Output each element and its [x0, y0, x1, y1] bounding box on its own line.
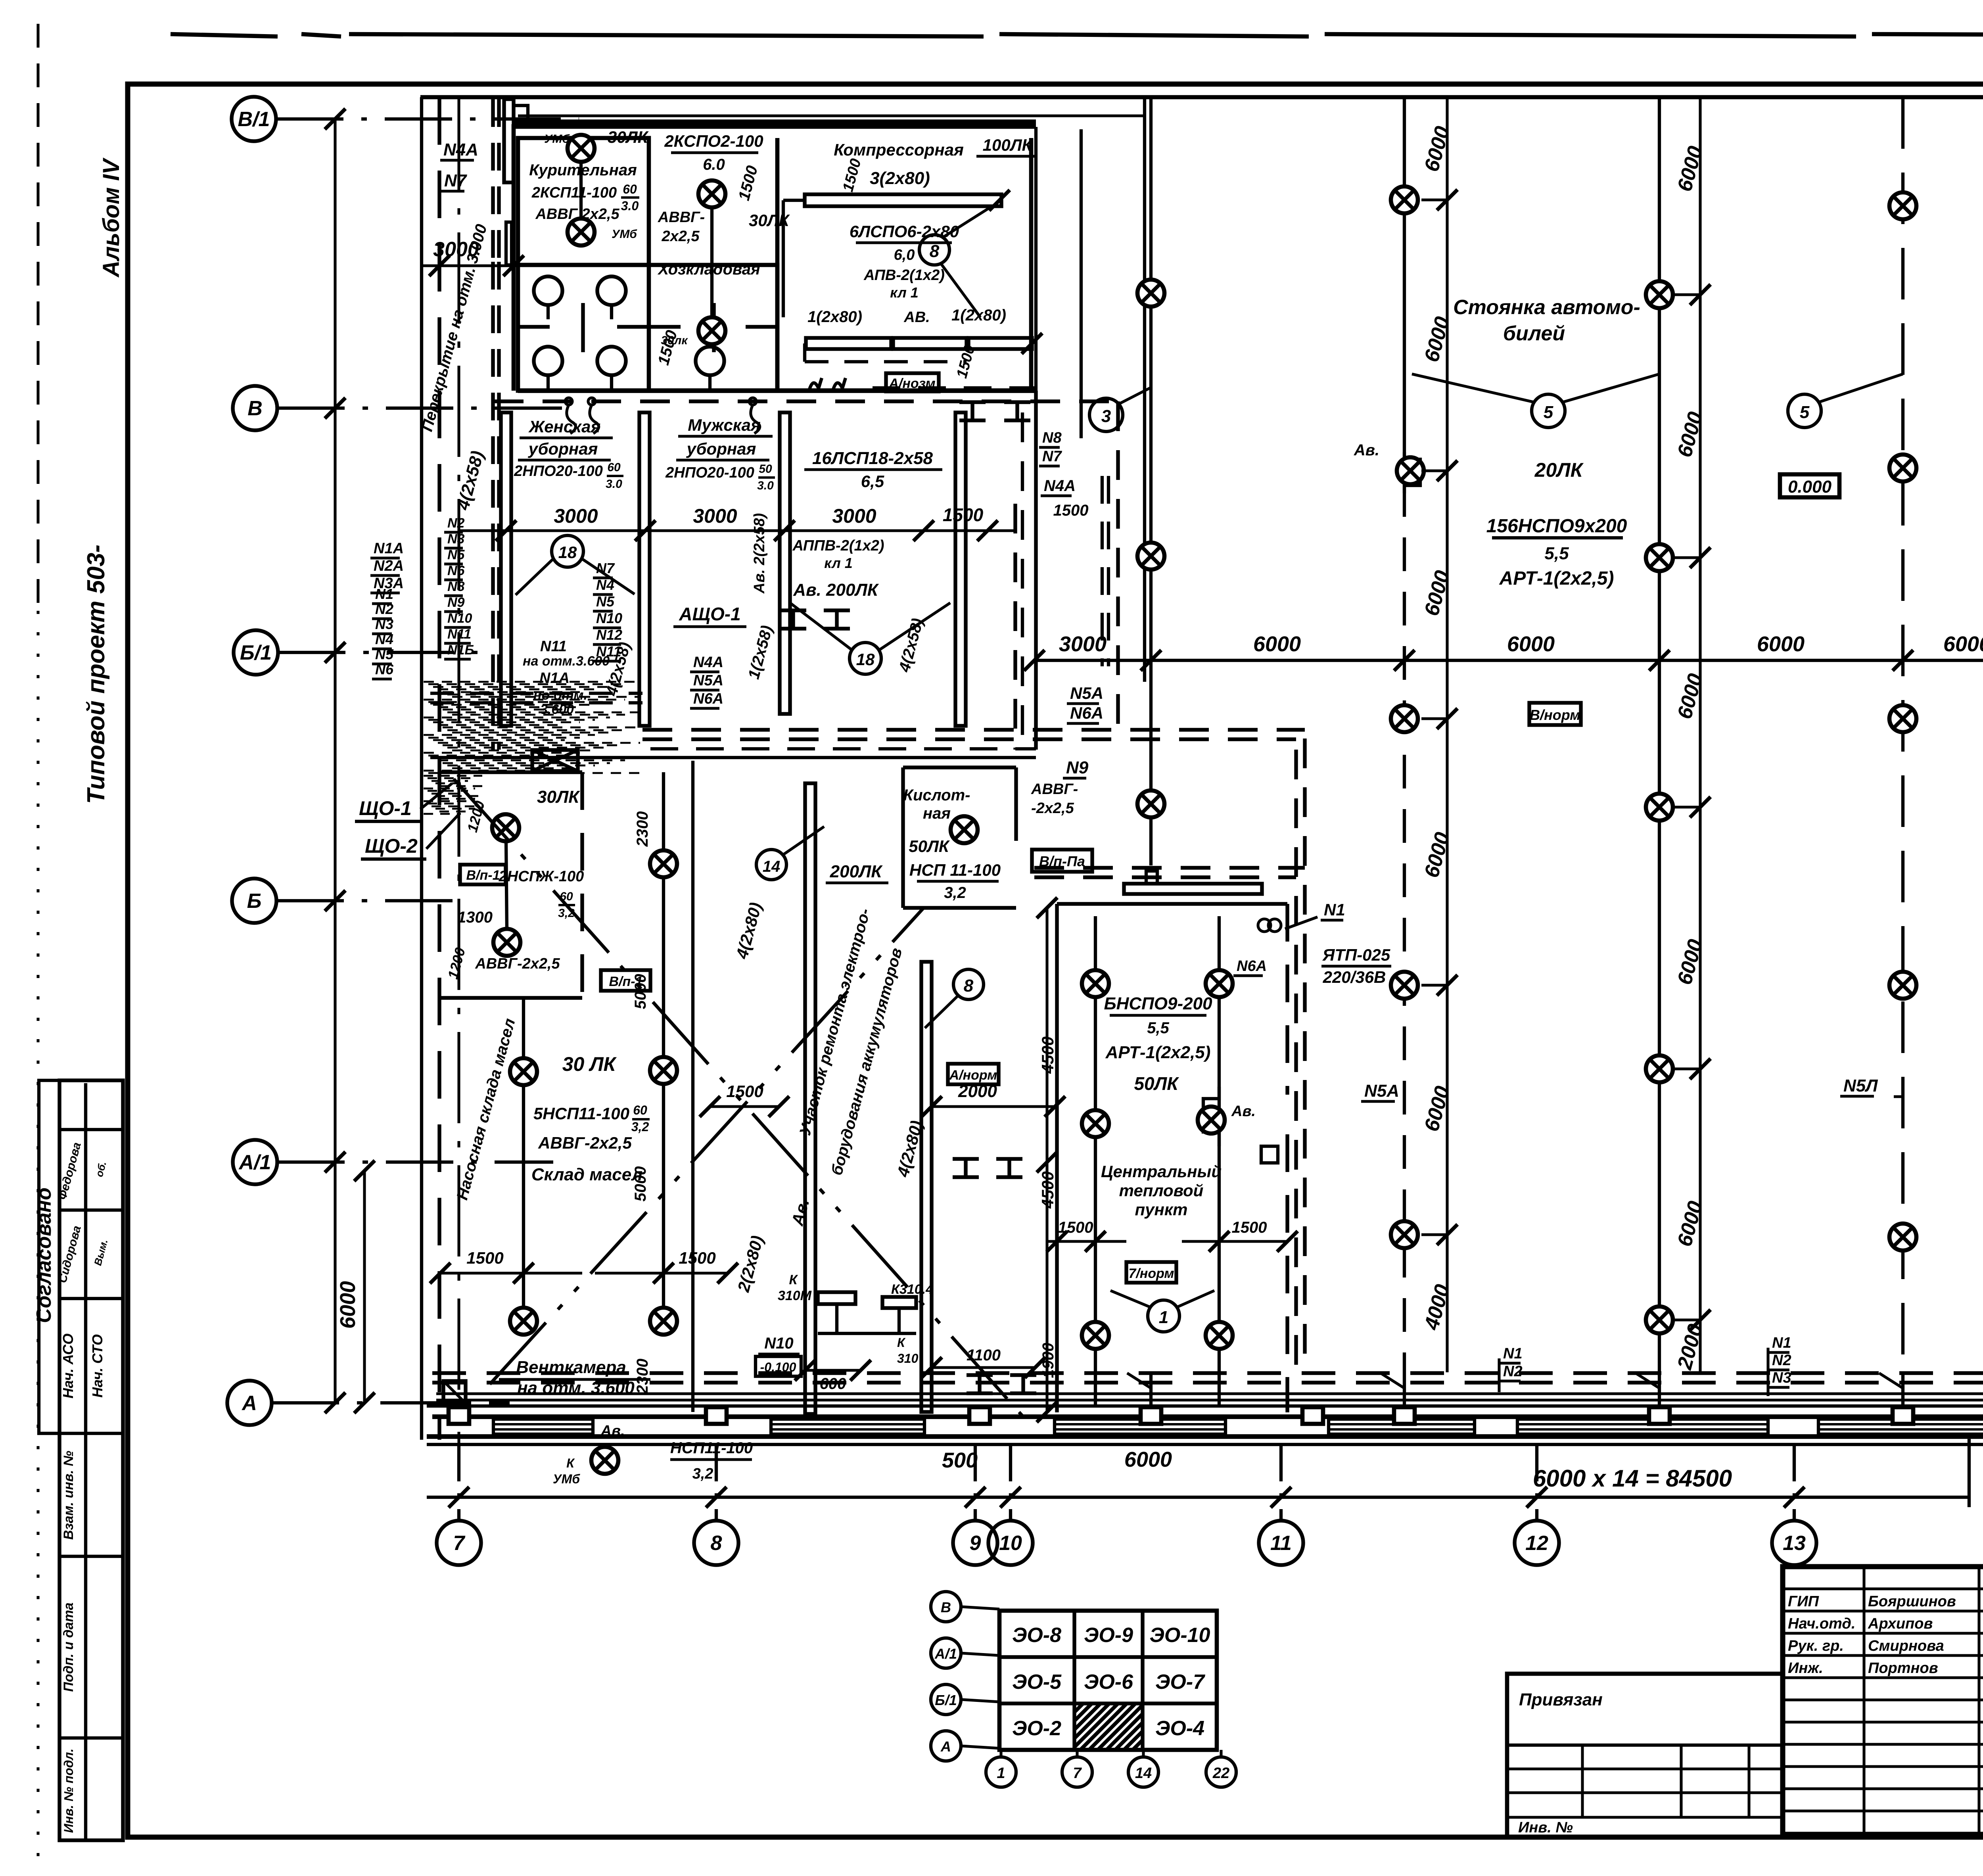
svg-text:ЭО-2: ЭО-2: [1012, 1717, 1061, 1740]
TsTP lamps col1: [1094, 916, 1097, 1384]
svg-text:N3: N3: [375, 616, 393, 632]
svg-text:ЭО-10: ЭО-10: [1150, 1624, 1210, 1647]
svg-text:А/1: А/1: [934, 1646, 957, 1662]
svg-text:тепловой: тепловой: [1119, 1181, 1204, 1200]
svg-text:Венткамера: Венткамера: [516, 1358, 626, 1377]
svg-text:50: 50: [759, 462, 772, 476]
svg-text:В: В: [247, 397, 263, 420]
svg-text:ЩО-1: ЩО-1: [359, 797, 412, 819]
svg-text:1500: 1500: [679, 1249, 715, 1267]
svg-text:9: 9: [970, 1532, 981, 1555]
lamp: [1082, 1322, 1109, 1349]
svg-text:1(2х80): 1(2х80): [807, 308, 862, 326]
svg-text:5НСП11-100: 5НСП11-100: [533, 1104, 629, 1123]
WC stalls partitions: [518, 325, 550, 328]
svg-text:1100: 1100: [967, 1347, 1001, 1364]
svg-text:18: 18: [558, 543, 577, 562]
lamp: [568, 219, 595, 246]
svg-text:Согласовано: Согласовано: [33, 1187, 56, 1323]
svg-text:билей: билей: [1503, 322, 1565, 345]
svg-text:7/норм: 7/норм: [1128, 1266, 1174, 1281]
svg-text:6000: 6000: [1757, 632, 1805, 656]
box V/p-1 mid: [601, 970, 650, 991]
dim line A x3649: [1446, 97, 1448, 1372]
lamp: [951, 816, 978, 843]
svg-text:N2А: N2А: [374, 558, 404, 574]
svg-text:20ЛК: 20ЛК: [1534, 459, 1584, 481]
svg-text:N2: N2: [1503, 1363, 1523, 1380]
building top exterior wall: [420, 95, 1983, 100]
svg-text:АРТ-1(2х2,5): АРТ-1(2х2,5): [1105, 1043, 1211, 1062]
svg-text:100ЛК: 100ЛК: [983, 136, 1034, 154]
axis 12: [1535, 1446, 1538, 1521]
svg-text:310: 310: [897, 1351, 919, 1366]
privyazan table: [1507, 1674, 1783, 1837]
svg-text:30 ЛК: 30 ЛК: [562, 1053, 617, 1075]
svg-text:5000: 5000: [632, 974, 649, 1009]
dim 2000: [932, 1105, 1055, 1108]
bottom feeder bundle: [432, 1371, 1983, 1375]
risers x2780: [1101, 476, 1104, 666]
top wall inner thick band: [514, 119, 1036, 129]
svg-text:50ЛК: 50ЛК: [1134, 1073, 1179, 1094]
svg-text:14: 14: [763, 858, 781, 875]
svg-text:N9: N9: [1066, 758, 1089, 777]
axis Б: [232, 879, 276, 923]
svg-text:N1: N1: [375, 586, 393, 602]
svg-text:2КСПО2-100: 2КСПО2-100: [664, 132, 763, 150]
svg-text:N4А: N4А: [693, 654, 723, 671]
circle 8b: [953, 969, 984, 999]
svg-text:156НСПО9х200: 156НСПО9х200: [1486, 516, 1627, 537]
svg-text:УМб: УМб: [544, 132, 570, 146]
axis В: [233, 386, 277, 430]
svg-text:НСП 11-100: НСП 11-100: [909, 861, 1001, 879]
hall wire column 3: [1658, 97, 1661, 1373]
luminaire strip long: [805, 783, 815, 1414]
feeder bundle above TsTP: [1034, 866, 1305, 869]
lamp: [650, 1057, 677, 1084]
norm box: [948, 1064, 999, 1084]
svg-text:Рук. гр.: Рук. гр.: [1788, 1638, 1844, 1654]
svg-text:Инв. №: Инв. №: [1518, 1819, 1573, 1836]
svg-text:кл 1: кл 1: [824, 555, 853, 571]
lamp: [510, 1058, 537, 1085]
lamp: [568, 135, 595, 162]
SchO cable maze: [424, 681, 640, 683]
svg-text:К310.4: К310.4: [891, 1282, 933, 1297]
svg-text:3.0: 3.0: [606, 478, 622, 491]
svg-text:А/1: А/1: [238, 1151, 271, 1174]
svg-text:Склад масел: Склад масел: [531, 1165, 642, 1184]
svg-text:Компрессорная: Компрессорная: [834, 140, 964, 159]
svg-text:N1: N1: [1324, 900, 1345, 919]
svg-text:4500: 4500: [1038, 1171, 1057, 1208]
svg-text:1: 1: [997, 1765, 1005, 1782]
lamp: [650, 1308, 677, 1335]
svg-text:АРТ-1(2х2,5): АРТ-1(2х2,5): [1499, 568, 1614, 589]
dim chain 3000x3: [459, 529, 1015, 532]
lamp: [650, 850, 677, 877]
hall wire column 2: [1403, 97, 1406, 460]
svg-text:Б/1: Б/1: [935, 1692, 957, 1708]
svg-text:N11: N11: [447, 627, 471, 642]
room Kompressornaya walls: [1029, 138, 1034, 391]
svg-text:8: 8: [930, 242, 940, 261]
svg-text:N1Б: N1Б: [447, 643, 474, 658]
axis А/1: [233, 1140, 277, 1184]
svg-text:600: 600: [820, 1375, 846, 1393]
dims 1500: [440, 1272, 582, 1274]
box V/p-IIa: [1032, 850, 1092, 872]
norm box: [1126, 1262, 1176, 1283]
svg-text:К: К: [566, 1456, 575, 1470]
svg-text:ная: ная: [923, 805, 951, 822]
svg-text:К: К: [897, 1335, 906, 1350]
svg-text:ЩО-2: ЩО-2: [365, 835, 418, 857]
axis 11: [1279, 1446, 1283, 1521]
svg-text:5,5: 5,5: [1147, 1019, 1169, 1037]
svg-text:6000: 6000: [1943, 632, 1983, 656]
axis 8: [715, 1446, 718, 1521]
svg-text:N8: N8: [447, 579, 465, 594]
svg-text:Кислот-: Кислот-: [903, 786, 970, 804]
svg-text:6ЛСПО6-2х80: 6ЛСПО6-2х80: [850, 222, 959, 241]
wall Sklad masel right: [691, 761, 694, 1412]
louver windows in bottom wall: [493, 1419, 593, 1434]
svg-text:6000 х 14 = 84500: 6000 х 14 = 84500: [1533, 1465, 1732, 1492]
svg-text:N10: N10: [596, 610, 622, 626]
svg-text:N5А: N5А: [1364, 1081, 1399, 1101]
right dim col 4500s: [1045, 908, 1048, 1412]
svg-text:Курительная: Курительная: [529, 161, 637, 179]
svg-text:АВВГ-: АВВГ-: [1031, 781, 1078, 798]
svg-text:3,2: 3,2: [944, 884, 966, 902]
svg-text:N5А: N5А: [693, 672, 723, 689]
svg-text:АВВГ-2х2,5: АВВГ-2х2,5: [538, 1134, 632, 1152]
svg-text:N1: N1: [1772, 1335, 1791, 1351]
svg-text:3000: 3000: [832, 505, 876, 527]
svg-text:60: 60: [607, 461, 621, 474]
svg-text:АВВГ-2х2,5: АВВГ-2х2,5: [475, 955, 560, 972]
svg-text:Женская: Женская: [528, 417, 600, 436]
TsTP walls: [1055, 904, 1059, 1412]
svg-text:Подп. и дата: Подп. и дата: [61, 1602, 76, 1692]
svg-text:N6А: N6А: [1237, 958, 1267, 974]
stairwell shaft: [491, 99, 495, 262]
hall column base stubs: [1149, 1373, 1153, 1407]
sheet left trim edge: [36, 24, 39, 611]
lamp: [510, 1308, 537, 1335]
soglasovano strip: [39, 1080, 59, 1433]
svg-text:3.0: 3.0: [621, 199, 639, 213]
svg-text:Ав. 2(2х58): Ав. 2(2х58): [751, 513, 768, 594]
svg-text:Архипов: Архипов: [1868, 1615, 1933, 1632]
svg-text:N9: N9: [447, 595, 465, 610]
svg-text:60: 60: [623, 182, 637, 196]
svg-text:N6: N6: [375, 661, 394, 677]
room Khozkladovaya: [775, 138, 780, 391]
svg-text:3,2: 3,2: [692, 1466, 713, 1482]
svg-text:N7: N7: [1042, 448, 1062, 465]
corridor feeder dashed: [494, 399, 1118, 403]
mid corridor feeder bundle: [430, 692, 642, 695]
axis B1 dim chain: [1034, 659, 1983, 662]
svg-text:6000: 6000: [1124, 1448, 1172, 1471]
circle 5a: [1532, 394, 1565, 428]
circle 18b: [850, 643, 881, 674]
svg-text:5000: 5000: [632, 1166, 649, 1202]
norm box: [886, 373, 939, 391]
diagonal vent lines: [454, 779, 1030, 1424]
svg-text:500: 500: [942, 1448, 978, 1472]
svg-text:УМб: УМб: [553, 1472, 580, 1486]
svg-text:АВВГ-: АВВГ-: [658, 209, 705, 226]
svg-text:Ав.: Ав.: [1231, 1103, 1256, 1120]
staff table: [1783, 1587, 1983, 1590]
svg-text:ЭО-4: ЭО-4: [1155, 1717, 1204, 1740]
svg-text:N6А: N6А: [1070, 704, 1103, 722]
svg-text:АВВГ 2х2,5: АВВГ 2х2,5: [535, 206, 619, 223]
svg-text:30ЛК: 30ЛК: [608, 128, 649, 146]
svg-text:N1: N1: [1503, 1345, 1523, 1362]
row2 left dashed wall: [491, 262, 495, 750]
right riser feeder bundle: [1294, 750, 1298, 1374]
svg-text:В/норм: В/норм: [1530, 707, 1580, 723]
svg-text:Ав. 200ЛК: Ав. 200ЛК: [793, 580, 879, 600]
svg-text:К: К: [789, 1272, 798, 1287]
svg-text:220/36В: 220/36В: [1323, 968, 1386, 986]
small symbols: [809, 378, 822, 391]
circle 18a: [552, 535, 583, 567]
svg-text:на отм.3.600: на отм.3.600: [523, 654, 610, 669]
luminaire strip: [805, 194, 1001, 206]
svg-text:1500: 1500: [466, 1249, 503, 1267]
svg-text:Портнов: Портнов: [1868, 1660, 1938, 1677]
group circle 8: [919, 235, 949, 265]
svg-text:2х2,5: 2х2,5: [661, 228, 700, 245]
svg-text:N2: N2: [1772, 1352, 1791, 1369]
bottom wall of top rooms: [518, 388, 1036, 393]
SchO cabinet with X: [532, 750, 578, 771]
svg-text:уборная: уборная: [528, 439, 598, 458]
svg-text:N5: N5: [447, 547, 465, 562]
svg-text:В/п-1: В/п-1: [466, 868, 500, 883]
svg-text:6,0: 6,0: [894, 247, 915, 263]
svg-text:N7: N7: [596, 560, 615, 576]
circle 3: [1089, 398, 1123, 432]
svg-text:N4: N4: [596, 577, 614, 593]
svg-text:6,5: 6,5: [861, 472, 884, 491]
svg-text:N10: N10: [447, 611, 472, 626]
svg-text:Стоянка автомо-: Стоянка автомо-: [1453, 296, 1640, 319]
axis В/1: [232, 97, 276, 141]
key plan axis circles: [931, 1592, 961, 1622]
svg-text:N2: N2: [447, 516, 465, 531]
svg-text:N2: N2: [375, 601, 393, 617]
svg-text:Типовой проект 503-: Типовой проект 503-: [82, 545, 110, 804]
hall wire column 1: [1149, 97, 1153, 865]
dims 1500: [1047, 1240, 1126, 1243]
small square: [1261, 1146, 1278, 1163]
vertical dimension line left: [334, 119, 336, 1403]
svg-text:8: 8: [964, 976, 974, 996]
svg-text:Ав.: Ав.: [600, 1423, 625, 1439]
svg-text:N4А: N4А: [1044, 477, 1076, 495]
svg-text:10: 10: [999, 1532, 1022, 1555]
svg-text:3: 3: [1101, 407, 1111, 426]
I-beam marks: [953, 1157, 979, 1161]
key plan grid: [999, 1611, 1217, 1750]
svg-text:1(2х80): 1(2х80): [951, 307, 1006, 324]
svg-text:2НПО20-100: 2НПО20-100: [665, 464, 754, 481]
svg-text:18: 18: [856, 650, 875, 669]
svg-text:АВ.: АВ.: [903, 309, 930, 326]
svg-text:Мужская: Мужская: [688, 416, 761, 434]
svg-text:N4: N4: [375, 631, 393, 647]
svg-text:АПВ-2(1х2): АПВ-2(1х2): [863, 267, 945, 284]
svg-text:Нач.отд.: Нач.отд.: [1788, 1615, 1855, 1632]
svg-text:Ав.: Ав.: [1354, 441, 1379, 459]
lamp: [698, 317, 725, 344]
svg-text:N7: N7: [444, 171, 468, 190]
I-beam marks: [959, 400, 986, 404]
svg-text:6000: 6000: [1253, 632, 1301, 656]
svg-text:Центральный: Центральный: [1101, 1162, 1222, 1181]
bottom dimension line: [427, 1496, 1969, 1499]
svg-text:ЯТП-025: ЯТП-025: [1322, 946, 1390, 964]
svg-text:Инж.: Инж.: [1788, 1660, 1823, 1677]
svg-text:16ЛСП18-2х58: 16ЛСП18-2х58: [812, 449, 933, 468]
svg-text:Б/1: Б/1: [240, 641, 272, 664]
svg-text:1500: 1500: [726, 1082, 763, 1101]
svg-text:14: 14: [1135, 1765, 1152, 1782]
WC rooms walls: [518, 265, 777, 391]
svg-text:1900: 1900: [1039, 1343, 1057, 1378]
svg-text:2300: 2300: [634, 811, 651, 847]
svg-text:6000: 6000: [1507, 632, 1555, 656]
svg-text:11: 11: [1270, 1532, 1292, 1555]
svg-text:N3: N3: [447, 531, 465, 547]
svg-text:N5А: N5А: [1070, 684, 1103, 702]
battery chargers: [818, 1292, 855, 1304]
svg-text:200ЛК: 200ЛК: [830, 862, 883, 881]
0.000 box: [1780, 474, 1839, 497]
room Nasosnaya walls: [440, 770, 582, 774]
svg-text:N5: N5: [596, 593, 615, 610]
svg-text:кл 1: кл 1: [890, 284, 919, 301]
svg-text:6.0: 6.0: [703, 156, 725, 173]
svg-text:УМб: УМб: [612, 228, 637, 241]
svg-text:АППВ-2(1х2): АППВ-2(1х2): [792, 537, 884, 554]
lamp: [492, 814, 519, 841]
circle 1: [1148, 1300, 1179, 1332]
svg-text:7: 7: [453, 1532, 466, 1555]
svg-text:Привязан: Привязан: [1519, 1690, 1603, 1709]
svg-text:А: А: [940, 1738, 951, 1755]
svg-text:Нач. СТО: Нач. СТО: [89, 1334, 105, 1398]
axis 7: [457, 1446, 460, 1521]
svg-text:N6: N6: [447, 563, 465, 578]
corner box: [443, 1381, 466, 1403]
wall right of rooms: [1034, 391, 1038, 750]
Kislotnaya top wall: [903, 765, 1016, 769]
svg-text:Б: Б: [247, 890, 262, 913]
svg-text:ЭО-7: ЭО-7: [1155, 1671, 1205, 1694]
Av lamp jog: [1203, 1087, 1219, 1146]
svg-text:Инв. № подл.: Инв. № подл.: [61, 1749, 76, 1833]
svg-text:Взам. инв. №: Взам. инв. №: [61, 1451, 76, 1540]
svg-text:3,2: 3,2: [631, 1120, 649, 1134]
svg-text:N4А: N4А: [443, 140, 478, 159]
svg-text:В/1: В/1: [238, 108, 270, 131]
svg-text:8: 8: [711, 1532, 722, 1555]
toilets: [534, 276, 562, 305]
axis 7 grid line: [457, 99, 460, 1444]
svg-text:4500: 4500: [1038, 1036, 1057, 1074]
lamp: [1206, 1322, 1233, 1349]
svg-text:2НПО20-100: 2НПО20-100: [514, 463, 603, 480]
svg-text:1500: 1500: [1058, 1219, 1093, 1236]
svg-text:3000: 3000: [693, 505, 737, 527]
svg-text:13: 13: [1783, 1532, 1806, 1555]
svg-text:30ЛК: 30ЛК: [537, 787, 580, 807]
svg-text:уборная: уборная: [686, 439, 756, 458]
svg-text:ЭО-9: ЭО-9: [1084, 1624, 1133, 1647]
dashed right wall of ASchO: [1013, 504, 1017, 750]
svg-text:N8: N8: [1042, 430, 1062, 446]
TsTP col base stubs: [1094, 1384, 1097, 1407]
luminaire strip 2: [921, 962, 932, 1412]
svg-text:1: 1: [1159, 1308, 1168, 1327]
hall west wall: [1143, 97, 1146, 682]
box V/p-1: [460, 865, 506, 884]
TsTP lamps col2: [1218, 916, 1221, 1384]
luminaire strips row2 rooms: [501, 412, 511, 726]
building left wall outer: [420, 97, 423, 1440]
svg-text:5: 5: [1800, 403, 1810, 422]
svg-text:N11: N11: [540, 638, 567, 655]
svg-text:5: 5: [1544, 403, 1553, 422]
svg-text:6000: 6000: [336, 1281, 360, 1329]
corridor east thin wall: [1080, 129, 1083, 438]
dim line B x4287: [1699, 97, 1701, 1372]
svg-text:12: 12: [1525, 1532, 1548, 1555]
Kislotnaya room: [901, 767, 905, 908]
svg-text:-0.100: -0.100: [760, 1360, 796, 1374]
luminaire strip row2: [806, 338, 891, 349]
svg-text:7: 7: [1073, 1765, 1082, 1782]
svg-text:2КСП11-100: 2КСП11-100: [531, 184, 617, 201]
svg-text:ЭО-5: ЭО-5: [1012, 1671, 1062, 1694]
svg-text:60: 60: [633, 1103, 647, 1117]
axis 13: [1793, 1446, 1796, 1521]
svg-text:А: А: [241, 1392, 257, 1415]
svg-text:3(2х80): 3(2х80): [870, 169, 930, 188]
feeder riser to mid corridor: [1116, 401, 1120, 730]
stamp column boxes: [59, 1080, 123, 1840]
lamp: [493, 929, 520, 956]
svg-text:310М: 310М: [778, 1288, 812, 1303]
svg-text:5,5: 5,5: [1544, 544, 1569, 563]
bottom exterior wall band: [427, 1404, 1983, 1408]
svg-text:АЩО-1: АЩО-1: [679, 604, 740, 624]
lamp: [698, 180, 725, 207]
svg-text:на отм. 3.600: на отм. 3.600: [517, 1378, 635, 1398]
svg-text:А/норм: А/норм: [949, 1068, 997, 1083]
svg-text:1500: 1500: [1232, 1219, 1267, 1236]
dim 1500: [710, 1105, 779, 1108]
